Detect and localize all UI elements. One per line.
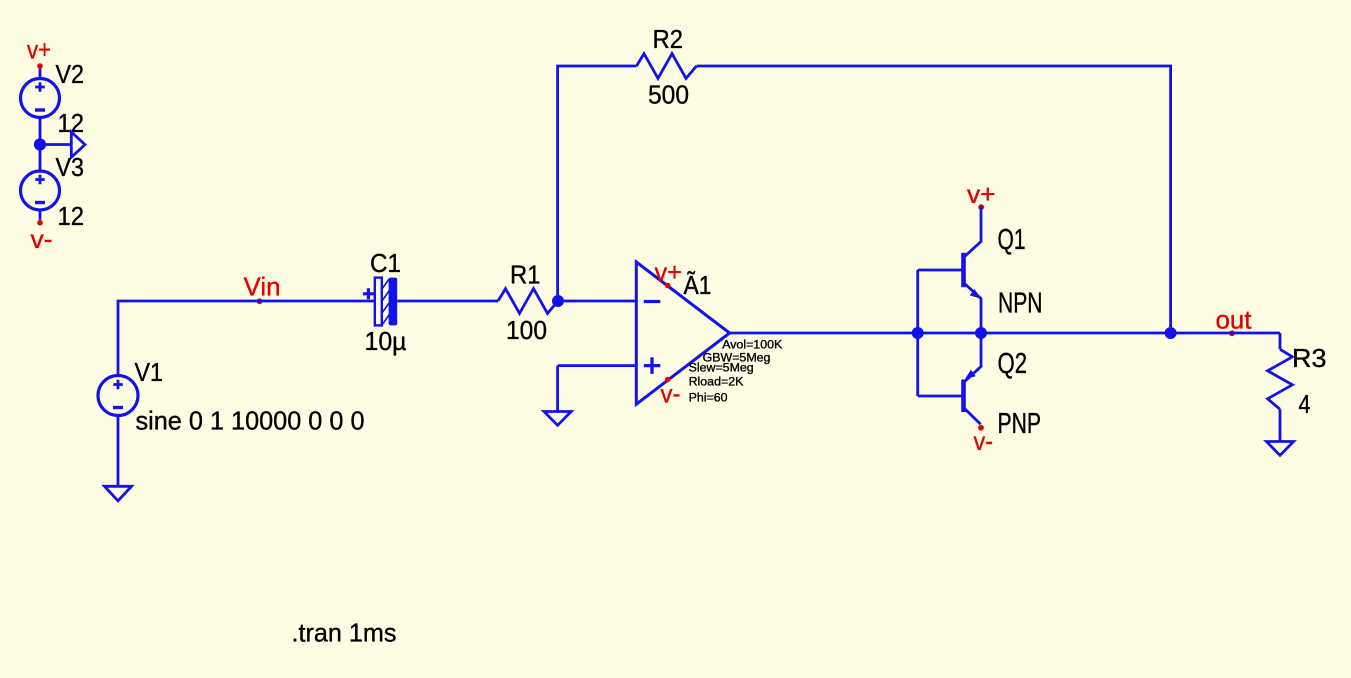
pin dot Q2 collector v-: [978, 425, 984, 431]
ground symbol at V1: [105, 486, 132, 501]
svg-text:V2: V2: [56, 59, 85, 89]
V3 minus mark: [35, 201, 45, 204]
svg-text:Rload=2K: Rload=2K: [689, 375, 745, 389]
net dot out: [1229, 330, 1235, 336]
V2 plus mark: [35, 82, 45, 92]
svg-text:sine 0 1 10000 0 0 0: sine 0 1 10000 0 0 0: [136, 406, 365, 436]
svg-text:Avol=100K: Avol=100K: [722, 337, 783, 351]
transistor Q1 collector: [965, 207, 981, 257]
svg-text:4: 4: [1299, 389, 1311, 419]
voltage source V2 circle: [21, 79, 60, 118]
svg-text:out: out: [1216, 304, 1253, 334]
svg-text:Slew=5Meg: Slew=5Meg: [689, 361, 754, 375]
svg-text:R2: R2: [653, 24, 684, 54]
capacitor C1 left plate: [375, 278, 382, 326]
junction node at bases: [912, 327, 924, 339]
wire v+ pin to V2 top: [39, 68, 42, 79]
wire out corner to R3: [1279, 333, 1282, 349]
capacitor C1 hatch lines: [382, 279, 389, 325]
V2 minus mark: [35, 108, 45, 111]
svg-text:12: 12: [58, 201, 85, 231]
svg-text:PNP: PNP: [998, 408, 1042, 440]
transistor Q1 base bar: [961, 253, 966, 287]
pin dot v- below V3: [37, 220, 43, 226]
V1 plus mark: [113, 380, 123, 390]
svg-text:v-: v-: [974, 426, 994, 456]
op-amp A1 triangle: [636, 262, 729, 404]
svg-text:V3: V3: [56, 152, 85, 182]
capacitor C1 polarity plus: [363, 288, 374, 299]
Q2 emitter arrow: [965, 370, 976, 380]
wire V1 bottom to ground: [117, 416, 120, 487]
V1 minus mark: [113, 406, 123, 409]
svg-text:V1: V1: [135, 357, 164, 387]
transistor Q2 collector: [965, 409, 981, 424]
transistor Q1 emitter: [965, 284, 981, 333]
svg-text:12: 12: [58, 108, 85, 138]
ground symbol at R3: [1266, 442, 1293, 456]
net dot Vin: [257, 298, 263, 304]
transistor Q2 emitter: [965, 333, 981, 381]
svg-text:.tran 1ms: .tran 1ms: [292, 618, 397, 648]
pin dot op-amp v+: [665, 283, 671, 289]
svg-text:Phi=60: Phi=60: [689, 391, 728, 405]
svg-text:Q1: Q1: [998, 224, 1026, 256]
svg-text:v+: v+: [27, 35, 51, 65]
wire op-amp noninverting input to left: [558, 364, 637, 367]
svg-text:v+: v+: [655, 257, 683, 287]
wire node to op-amp inverting input: [558, 300, 636, 303]
op-amp minus input mark: [644, 300, 661, 303]
svg-text:Ã1: Ã1: [684, 270, 712, 300]
svg-text:NPN: NPN: [998, 287, 1043, 319]
resistor R2 zigzag: [637, 54, 697, 79]
junction node at V2/V3: [34, 138, 46, 150]
resistor R1 zigzag: [498, 289, 558, 314]
V3 plus mark: [35, 175, 45, 185]
Q1 emitter arrow: [970, 289, 981, 299]
svg-text:v+: v+: [967, 179, 996, 209]
resistor R3 zigzag: [1268, 349, 1293, 409]
pin dot v+ above V2: [37, 63, 43, 69]
voltage source V1 circle: [98, 376, 138, 416]
wire Q1 base: [918, 269, 962, 272]
wire bases left riser: [916, 270, 919, 396]
wire node to port triangle: [40, 143, 71, 146]
wire feedback left riser to top rail: [558, 66, 637, 301]
voltage source V3 circle: [21, 171, 60, 210]
ground symbol at op-amp: [544, 412, 571, 426]
svg-text:R3: R3: [1292, 343, 1327, 373]
wire V2 bottom to V3 top: [39, 118, 42, 172]
wire riser to ground at op-amp: [556, 366, 559, 412]
wire R3 to ground: [1279, 409, 1282, 441]
junction node at feedback / out: [1165, 327, 1177, 339]
svg-text:R1: R1: [510, 260, 541, 290]
op-amp plus input mark: [644, 357, 661, 374]
svg-text:v-: v-: [661, 379, 681, 409]
svg-text:Q2: Q2: [998, 348, 1028, 380]
wire C1 to R1: [397, 300, 498, 303]
pin dot Q1 collector v+: [978, 204, 984, 210]
wire op-amp output to push-pull and out: [730, 332, 1280, 335]
wire V3 bottom to v- pin: [39, 210, 42, 220]
pin dot op-amp v-: [665, 377, 671, 383]
port marker triangle: [71, 132, 85, 157]
svg-text:C1: C1: [370, 248, 401, 278]
wire top rail to right riser down to out node: [697, 66, 1171, 333]
svg-text:Vin: Vin: [244, 272, 281, 302]
svg-text:v-: v-: [31, 224, 53, 254]
svg-text:10µ: 10µ: [365, 326, 407, 356]
junction node at R1 / feedback: [552, 295, 564, 307]
capacitor C1 right plate: [389, 278, 398, 326]
wire Q2 base: [918, 395, 962, 398]
transistor Q2 base bar: [961, 380, 966, 413]
wire V1 top up and right to C1 (node Vin): [118, 301, 375, 376]
svg-text:500: 500: [648, 79, 689, 109]
junction node at emitters: [975, 327, 987, 339]
svg-text:100: 100: [506, 315, 547, 345]
